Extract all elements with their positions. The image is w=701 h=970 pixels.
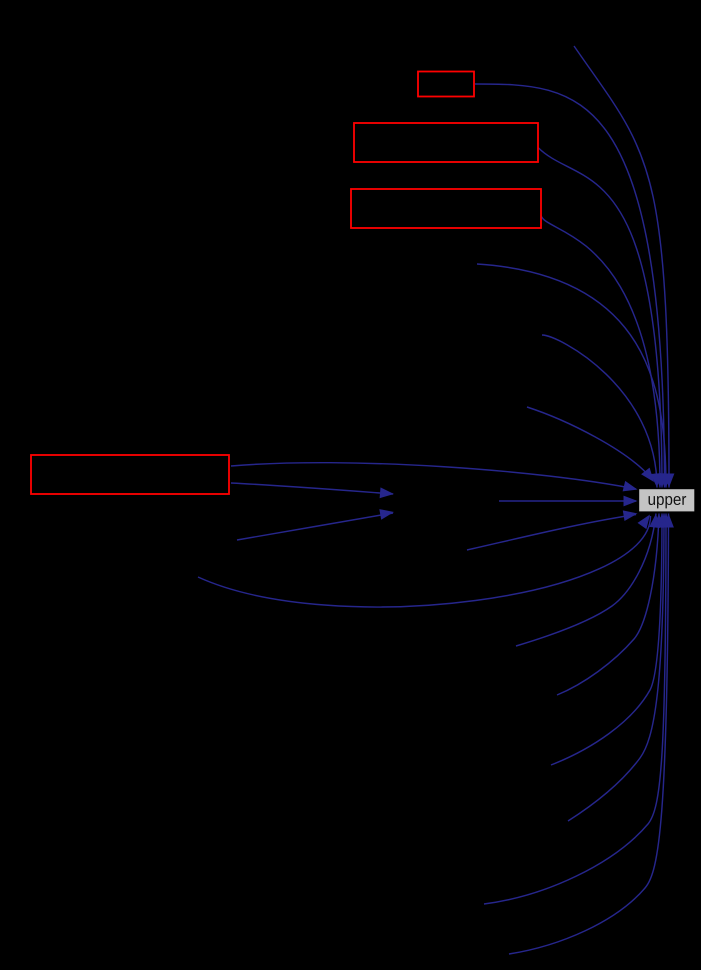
edge B3	[516, 514, 656, 647]
arrowhead M1	[380, 487, 394, 498]
red node box3	[351, 189, 541, 228]
edge B5	[551, 514, 662, 766]
arrowhead B4	[653, 514, 664, 528]
arrowhead B5	[657, 514, 668, 528]
arrowhead L2	[624, 496, 638, 507]
edge L1	[231, 463, 636, 489]
edge B6	[568, 514, 664, 822]
arrowhead M2	[379, 509, 394, 520]
edge T6	[542, 335, 657, 488]
edge T1	[574, 46, 669, 488]
arrowhead B7	[661, 514, 672, 528]
edge L2	[499, 500, 636, 502]
edge T5	[477, 264, 666, 488]
arrowhead B2	[638, 515, 651, 530]
red node box2	[354, 123, 538, 162]
arrowhead B3	[649, 514, 660, 529]
arrowhead T3	[657, 474, 668, 488]
arrowhead T5	[661, 474, 672, 488]
arrowhead L1	[623, 481, 638, 492]
arrowhead T4	[654, 473, 665, 487]
label upper	[649, 496, 687, 508]
edge M2	[237, 513, 393, 540]
red node box4	[31, 455, 229, 494]
arrowhead B1	[623, 510, 638, 521]
edge T4	[541, 216, 660, 488]
arrowhead T6	[650, 473, 661, 487]
red node box1	[418, 72, 474, 97]
edge B1	[467, 515, 636, 551]
arrowhead B6	[659, 514, 670, 528]
edge B2	[198, 516, 651, 607]
node upper	[639, 489, 696, 513]
edge B7	[484, 514, 666, 905]
edge B4	[557, 514, 659, 696]
edge B8	[509, 514, 669, 955]
edge T2	[475, 84, 665, 488]
arrowhead B8	[663, 514, 674, 528]
edge M1	[231, 483, 393, 494]
arrowhead T7	[641, 468, 654, 482]
edge T7	[527, 407, 650, 477]
arrowhead T1	[664, 474, 675, 488]
arrowhead T2	[659, 474, 670, 488]
edge T3	[538, 148, 662, 488]
